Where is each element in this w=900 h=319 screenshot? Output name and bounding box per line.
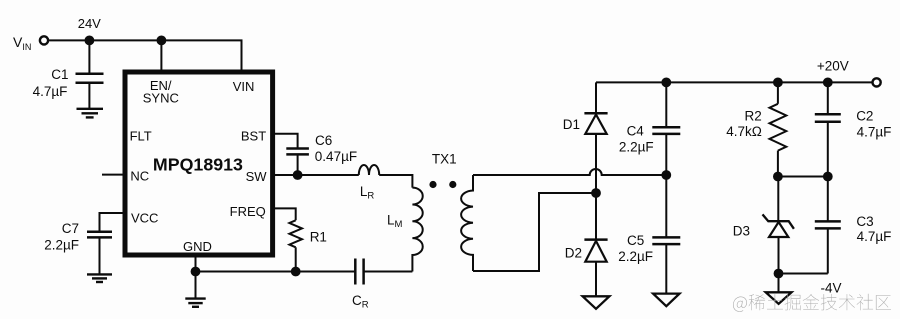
diode D1 bbox=[584, 113, 607, 239]
wire EN/SYNC pin drop bbox=[160, 40, 162, 71]
transformer TX1 phasing dot right bbox=[449, 181, 456, 188]
svg-text:D1: D1 bbox=[563, 117, 580, 132]
svg-text:C2: C2 bbox=[856, 109, 873, 124]
svg-text:4.7µF: 4.7µF bbox=[857, 229, 892, 244]
wire R2/C2 mid link bbox=[778, 176, 828, 178]
wire SW pin bbox=[274, 174, 359, 176]
capacitor C4 bbox=[652, 82, 680, 175]
node C4/C5 mid junction bbox=[661, 170, 671, 180]
node 24V junction bbox=[85, 36, 95, 46]
svg-text:FREQ: FREQ bbox=[230, 204, 266, 219]
svg-text:VIN: VIN bbox=[233, 79, 255, 94]
svg-text:R1: R1 bbox=[310, 229, 327, 244]
capacitor CR bbox=[355, 259, 412, 285]
wire +20V top rail bbox=[596, 81, 873, 83]
svg-text:LM: LM bbox=[387, 213, 403, 231]
ground under C1 bbox=[77, 109, 104, 118]
svg-text:FLT: FLT bbox=[130, 128, 152, 143]
svg-text:C5: C5 bbox=[627, 233, 644, 248]
ground under D3 bbox=[766, 274, 792, 304]
svg-text:-4V: -4V bbox=[820, 280, 841, 295]
svg-text:C6: C6 bbox=[315, 133, 332, 148]
wire bottom rail GND to CR bbox=[196, 271, 356, 273]
diode D3 zener bbox=[763, 214, 794, 273]
node D3 bottom junction bbox=[774, 269, 784, 279]
resistor R2 bbox=[770, 82, 787, 176]
node R1 bottom junction bbox=[291, 267, 301, 277]
svg-text:4.7kΩ: 4.7kΩ bbox=[726, 124, 762, 139]
svg-text:BST: BST bbox=[241, 128, 266, 143]
ground under D2 bbox=[583, 296, 610, 309]
svg-text:2.2µF: 2.2µF bbox=[619, 139, 654, 154]
inductor TX1 secondary winding bbox=[461, 175, 473, 271]
ground under C7 bbox=[87, 274, 112, 282]
svg-text:2.2µF: 2.2µF bbox=[44, 238, 79, 253]
svg-text:R2: R2 bbox=[745, 109, 762, 124]
svg-text:TX1: TX1 bbox=[432, 151, 457, 166]
wire LR to LM bbox=[379, 175, 412, 188]
ground under GND pin bbox=[185, 272, 205, 307]
svg-text:C7: C7 bbox=[62, 221, 79, 236]
svg-text:0.47µF: 0.47µF bbox=[315, 149, 357, 164]
svg-text:2.2µF: 2.2µF bbox=[618, 249, 653, 264]
inductor LM primary winding bbox=[412, 188, 422, 272]
svg-text:MPQ18913: MPQ18913 bbox=[153, 154, 243, 174]
svg-text:CR: CR bbox=[352, 293, 369, 311]
node C2 top junction bbox=[823, 78, 833, 88]
svg-text:4.7µF: 4.7µF bbox=[857, 125, 892, 140]
svg-text:+20V: +20V bbox=[817, 59, 849, 74]
svg-text:24V: 24V bbox=[78, 16, 101, 31]
svg-text:C4: C4 bbox=[627, 124, 645, 139]
wire BST pin bbox=[274, 134, 298, 149]
wire secondary bottom to diode junction bbox=[473, 193, 596, 271]
watermark bbox=[733, 294, 891, 312]
node C4 top junction bbox=[661, 78, 671, 88]
svg-text:D2: D2 bbox=[565, 246, 582, 261]
node GND junction bbox=[191, 267, 201, 277]
resistor R1 bbox=[289, 220, 302, 247]
svg-text:4.7µF: 4.7µF bbox=[33, 84, 68, 99]
svg-text:SW: SW bbox=[246, 169, 268, 184]
wire secondary top rail with hop over diode column bbox=[473, 169, 666, 175]
node SW/C6 junction bbox=[293, 170, 303, 180]
svg-text:LR: LR bbox=[360, 184, 375, 202]
capacitor C7 bbox=[87, 232, 112, 275]
ground under C5 bbox=[653, 294, 679, 307]
wire FREQ pin bbox=[274, 208, 296, 220]
terminal +20V output bbox=[873, 78, 881, 86]
svg-text:D3: D3 bbox=[733, 223, 750, 238]
node C2 bottom junction bbox=[823, 172, 833, 182]
wire R1 to bottom rail bbox=[295, 247, 297, 271]
node EN junction bbox=[157, 36, 167, 46]
terminal VIN input bbox=[40, 36, 48, 44]
capacitor C2 bbox=[815, 82, 841, 176]
wire GND pin drop bbox=[195, 256, 197, 272]
node R2 top junction bbox=[773, 78, 783, 88]
transformer TX1 phasing dot left bbox=[429, 181, 436, 188]
svg-text:NC: NC bbox=[130, 168, 149, 183]
inductor LR bbox=[359, 165, 379, 175]
capacitor C1 bbox=[76, 40, 104, 108]
capacitor C3 bbox=[815, 177, 841, 274]
node R2 bottom junction bbox=[773, 172, 783, 182]
wire VCC pin bbox=[100, 213, 125, 232]
svg-text:SYNC: SYNC bbox=[143, 91, 179, 106]
wire D1 column top bbox=[595, 82, 597, 113]
capacitor C5 bbox=[652, 175, 680, 294]
capacitor C6 bbox=[286, 149, 309, 176]
node secondary/diode junction bbox=[591, 188, 601, 198]
svg-text:GND: GND bbox=[183, 239, 212, 254]
wire D3 column bbox=[777, 177, 779, 222]
IC U1 MPQ18913 box bbox=[125, 72, 273, 255]
svg-text:VIN: VIN bbox=[13, 34, 31, 52]
wire input rail 24V bbox=[48, 40, 241, 71]
IC pin labels bbox=[130, 78, 268, 254]
diode D2 bbox=[584, 240, 607, 297]
wire -4V link to C3 bbox=[779, 273, 828, 275]
svg-text:C1: C1 bbox=[51, 67, 68, 82]
svg-text:VCC: VCC bbox=[131, 211, 158, 226]
svg-text:C3: C3 bbox=[856, 214, 873, 229]
wire NC stub bbox=[102, 174, 124, 176]
